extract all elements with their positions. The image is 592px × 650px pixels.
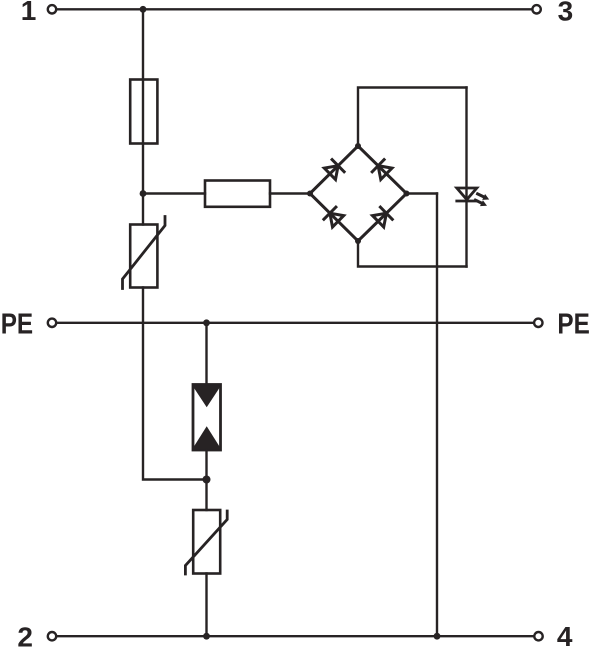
terminal 1 circle [48, 5, 56, 13]
junction dot PE rail [203, 319, 210, 326]
wire node A down to varistor 1 [142, 194, 144, 225]
wire bridge right vertex to right branch [407, 192, 438, 194]
wire terminal1 branch down through fuse to node A [142, 9, 144, 193]
suppressor bottom triangle [192, 426, 221, 449]
bridge vertex dots [307, 143, 410, 244]
wire PE junction down to suppressor [205, 323, 207, 385]
svg-text:PE: PE [557, 309, 589, 341]
terminal 2 circle [48, 632, 56, 640]
LED H1 cathode bar [457, 200, 477, 203]
svg-text:3: 3 [558, 0, 574, 26]
node B junction dot [203, 476, 211, 484]
wire node A to resistor [143, 192, 205, 194]
wire PE rail [58, 322, 533, 324]
suppressor top triangle [192, 385, 221, 407]
varistor R3 body [193, 510, 220, 574]
suppressor diode F2 body [193, 385, 221, 451]
junction dot bottom rail right [434, 633, 441, 640]
wire suppressor to node B [205, 450, 207, 480]
varistor R3 diagonal stroke [185, 511, 227, 574]
svg-text:PE: PE [1, 309, 33, 341]
fuse F1 [130, 80, 157, 144]
wire bridge top vertex up and right to LED branch [358, 88, 467, 147]
terminal 4 circle [534, 632, 542, 640]
diode bridge V1 : diamond edges [310, 146, 407, 241]
junction dot top rail [140, 6, 147, 13]
wire node B to varistor 2 [205, 480, 207, 511]
varistor R2 diagonal stroke [123, 217, 166, 289]
svg-text:1: 1 [21, 0, 37, 26]
resistor R1 [205, 181, 270, 207]
LED light arrow 2 [475, 200, 487, 206]
PE terminal circle right [534, 319, 542, 327]
wire bridge bottom vertex down and right to LED branch [358, 241, 467, 267]
varistor R2 body [130, 225, 157, 288]
wire resistor to bridge left vertex [270, 192, 310, 194]
bridge diode D4 (bottom to right) [373, 207, 393, 227]
bridge diode D2 (right to top) [372, 160, 392, 180]
bridge diode D1 (left to top) [324, 160, 344, 180]
node A junction dot [140, 190, 147, 197]
wire varistor 2 to bottom rail [205, 574, 207, 637]
wire right branch down to bottom rail [436, 194, 438, 637]
LED H1 triangle [457, 188, 477, 200]
svg-text:4: 4 [557, 621, 573, 650]
wire bottom rail [58, 635, 533, 637]
wire LED branch vertical [465, 88, 467, 267]
LED light arrow 1 [478, 194, 490, 200]
PE terminal circle left [48, 319, 56, 327]
terminal 3 circle [532, 5, 540, 13]
wire varistor 1 down across PE to corner [143, 288, 207, 480]
wire top rail [58, 8, 532, 10]
bridge diode D3 (bottom to left) [324, 207, 344, 227]
svg-text:2: 2 [17, 622, 33, 650]
junction dot bottom rail left [203, 633, 210, 640]
